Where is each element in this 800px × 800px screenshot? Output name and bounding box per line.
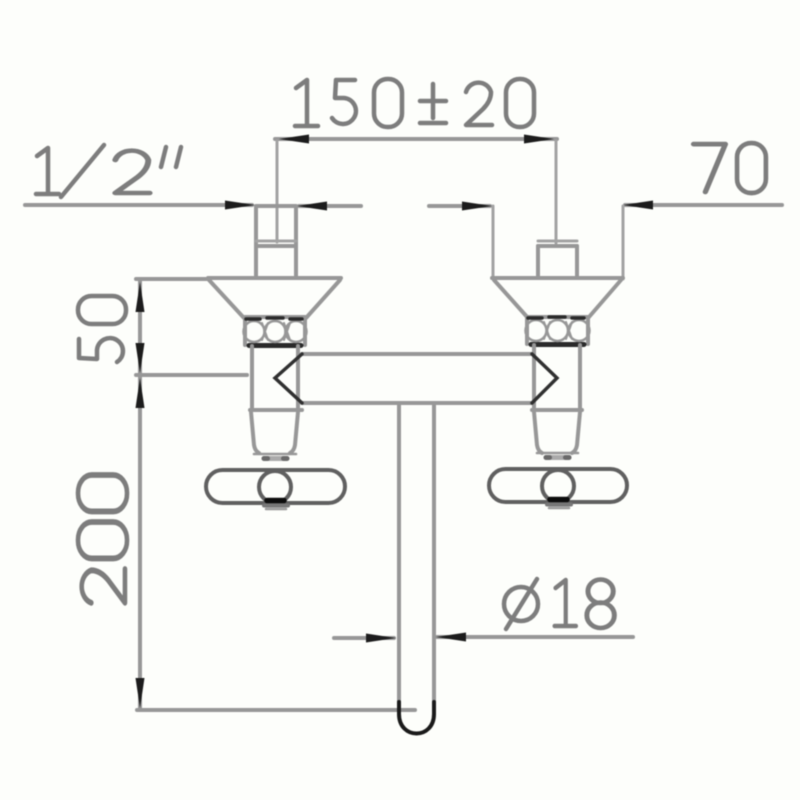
tapered body left: [251, 412, 298, 453]
arrow 70 right: [623, 201, 653, 210]
inlet pipe left: [256, 206, 296, 278]
hub left: [254, 453, 296, 456]
label 50 (rotated): [78, 296, 126, 362]
dim line 150±20: [275, 137, 557, 141]
union nut lines left: [256, 240, 296, 243]
dim line 200: [138, 377, 142, 710]
label 70: [694, 143, 766, 193]
spout pipe: [399, 405, 434, 714]
arrow 50 bottom: [136, 343, 145, 373]
extension line 70 left: [492, 206, 495, 279]
arrow 150 right: [524, 135, 554, 144]
joint line right: [532, 408, 582, 412]
arrow 1/2: [225, 201, 255, 210]
arrow pipe right: [297, 202, 327, 211]
spout chevron right: [532, 354, 557, 403]
arrow 150 left: [279, 135, 309, 144]
valve body left: [252, 346, 298, 410]
spout chevron left: [275, 354, 302, 403]
label 200 (rotated): [78, 475, 127, 603]
tapered body right: [534, 412, 580, 453]
ring right: [526, 317, 590, 345]
dim line 50: [138, 281, 142, 374]
extension line 70 right: [622, 206, 625, 279]
arrow Ø18 left: [366, 634, 396, 643]
valve body right: [534, 345, 580, 410]
extension line right center: [555, 141, 558, 243]
escutcheon right: [492, 278, 623, 318]
union nut lines right: [538, 240, 577, 243]
hub right: [537, 452, 578, 455]
leader 70 right: [625, 203, 782, 207]
handle left: [206, 470, 345, 509]
label Ø18: [504, 579, 614, 629]
handle right: [489, 469, 627, 508]
arrow Ø18 right: [436, 633, 466, 642]
ring left: [244, 317, 307, 346]
arrow 50 top: [136, 282, 145, 312]
extension line left center: [276, 141, 279, 242]
extension 200 bottom: [137, 708, 415, 712]
arrow 70 left: [462, 202, 492, 211]
leader pipe right: [299, 204, 361, 208]
arrow 200 bottom: [136, 678, 145, 708]
spout pipe bottom: [399, 702, 434, 734]
label 1/2": [36, 145, 181, 197]
extension 50 bottom: [136, 373, 247, 377]
inlet pipe right: [538, 246, 577, 278]
spout body: [302, 354, 532, 403]
arrow 200 top: [136, 378, 145, 408]
leader Ø18 left: [334, 636, 394, 640]
extension 50 top: [136, 277, 210, 281]
leader 1/2": [25, 203, 252, 207]
label 150±20: [295, 79, 534, 127]
escutcheon left: [208, 278, 341, 318]
joint line left: [250, 408, 302, 412]
leader 70 left: [429, 204, 490, 208]
leader Ø18 right: [437, 635, 633, 639]
